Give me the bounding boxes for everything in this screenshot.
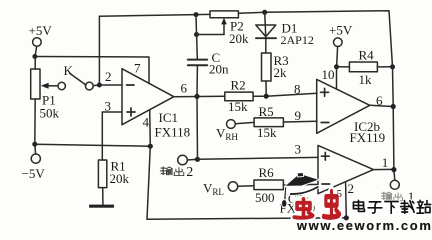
op-amp IC2a triangle: [318, 145, 374, 193]
svg-text:IC1: IC1: [159, 110, 179, 125]
wire: VRL to R6: [238, 185, 254, 188]
svg-text:−5V: −5V: [22, 166, 46, 181]
svg-text:20k: 20k: [229, 31, 249, 46]
IC2a plus sign: [321, 152, 329, 160]
IC1 inverting input minus sign: [127, 84, 135, 86]
wire: +5V rail to IC1 pin 7: [35, 57, 149, 84]
terminal: -5V: [31, 154, 40, 163]
wire: switch to IC1 pin 2 junction: [93, 84, 99, 87]
watermark: site name CJK text: [353, 200, 430, 213]
wire: IC1 output node down the left: [196, 96, 199, 159]
svg-text:K: K: [64, 63, 74, 78]
node: IC1 output junction: [194, 94, 199, 99]
wire: IC1 pin 3 input: [102, 111, 122, 113]
node: +5V rail junction: [32, 54, 37, 59]
wire: C branch vertical from top rail: [195, 15, 198, 35]
svg-text:15k: 15k: [257, 125, 277, 140]
wire: pin 3 vertical to R1: [101, 112, 103, 160]
switch K contact left: [58, 82, 65, 89]
wire: node to IC2a pin 3: [198, 157, 319, 159]
label: output 2 (CJK): [160, 167, 183, 176]
wire: R1 to ground: [102, 188, 104, 205]
svg-text:R2: R2: [231, 78, 246, 93]
wire: R3 to pin 8 node: [265, 81, 267, 96]
wire: R5 to IC2b pin 9: [283, 120, 317, 123]
watermark white halo: [294, 191, 431, 233]
P2 wiper arrow vertical: [221, 18, 227, 35]
resistor R6 body: [254, 180, 283, 190]
watermark: red chong chong characters: [294, 191, 339, 217]
wire: P1 top to +5V junction: [34, 57, 36, 70]
wire: P1 bottom to -5V junction: [34, 99, 36, 144]
wire: C to IC1 output node: [196, 66, 198, 96]
resistor R3 body: [262, 53, 272, 81]
terminal: +5V right: [334, 38, 343, 47]
wire: IC2a output to bus: [374, 168, 394, 170]
wire: +5V right terminal to junction: [337, 47, 338, 67]
IC2b plus sign: [321, 88, 329, 96]
wire: -5V terminal stub: [34, 144, 37, 154]
wire: IC1 output to R2: [174, 95, 225, 97]
terminal: +5V left: [33, 38, 42, 47]
wire: VRH to R5: [235, 122, 254, 123]
wire: +5V terminal to rail junction: [35, 46, 37, 56]
svg-text:20n: 20n: [209, 62, 229, 77]
svg-text:50k: 50k: [40, 106, 60, 121]
svg-text:1: 1: [382, 155, 389, 170]
svg-text:7: 7: [134, 61, 141, 76]
IC1 non-inverting input plus sign: [127, 108, 135, 116]
watermark: graduation cap logo: [282, 173, 320, 208]
svg-text:3: 3: [105, 99, 112, 114]
op-amp IC1 triangle: [122, 69, 174, 125]
IC2a minus sign: [322, 183, 330, 185]
svg-text:15k: 15k: [228, 99, 248, 114]
svg-text:FX119: FX119: [350, 130, 386, 145]
wire: junction to R4: [337, 66, 350, 68]
switch K contact right: [85, 82, 93, 90]
capacitor C top plate: [188, 59, 207, 61]
terminal: VRH input: [227, 120, 236, 129]
resistor R2 body: [225, 92, 253, 101]
svg-text:1k: 1k: [359, 72, 373, 87]
node: output 1 junction: [391, 167, 396, 172]
svg-text:FX118: FX118: [155, 125, 191, 140]
wire: D1 cathode to R3: [265, 38, 267, 53]
svg-text:VRL: VRL: [203, 181, 224, 198]
node: junction bottom rail x=331: [328, 216, 333, 221]
resistor R5 body: [254, 118, 283, 127]
wire: R2 to IC2b pin 8: [253, 93, 317, 96]
wire: top feedback rail (output node to IC1 pin 2 node): [99, 11, 392, 67]
diode D1 triangle: [256, 25, 276, 37]
svg-text:5: 5: [337, 189, 342, 200]
svg-text:3: 3: [295, 142, 302, 157]
wire: IC2b output: [370, 105, 393, 106]
terminal: output 1: [390, 180, 399, 189]
svg-text:2: 2: [105, 69, 112, 84]
wire: -5V rail to IC1 pin 4 junction: [35, 144, 151, 146]
svg-text:2: 2: [186, 165, 193, 180]
label: output 1 (CJK, faint): [381, 192, 402, 201]
svg-text:+5V: +5V: [29, 23, 53, 38]
terminal: output 2: [178, 155, 188, 165]
svg-text:4: 4: [143, 115, 150, 130]
diode D1 cathode bar: [256, 37, 276, 39]
svg-text:R5: R5: [259, 104, 274, 119]
wire: output2 terminal to node: [187, 158, 197, 161]
svg-text:R4: R4: [359, 48, 375, 63]
wire: R4 to output node: [377, 66, 392, 68]
node: junction bottom rail x=346: [344, 215, 349, 220]
wire: left vertical drop to IC1 pin 2: [98, 16, 100, 85]
wire: IC2b pin 10 stub: [336, 67, 338, 89]
wire: P2 wiper horizontal: [197, 34, 225, 36]
resistor R1 body: [98, 160, 106, 188]
svg-text:20k: 20k: [110, 171, 130, 186]
wire: junction to IC1 pin 2: [99, 84, 122, 86]
node: -5V junction: [32, 142, 37, 147]
svg-text:500: 500: [255, 190, 275, 205]
svg-text:6: 6: [181, 81, 188, 96]
wire: IC2a pin stub at x=331: [330, 188, 332, 218]
wire: bottom loop down and right to IC2a ground: [147, 146, 346, 219]
node: IC1 pin 4 junction: [148, 144, 153, 149]
node: R4/top rail junction: [390, 64, 395, 69]
svg-text:2AP12: 2AP12: [281, 33, 314, 47]
svg-text:9: 9: [295, 108, 302, 123]
capacitor C bottom plate: [188, 64, 207, 66]
wire: D1 anode stub (passes through symbol): [265, 12, 266, 38]
node: junction top wire / C branch: [194, 12, 199, 17]
wire: IC2a pin stub at x=345: [345, 182, 348, 218]
svg-text:R6: R6: [259, 165, 275, 180]
svg-text:2: 2: [348, 181, 355, 196]
svg-text:8: 8: [294, 82, 301, 97]
svg-text:VRH: VRH: [216, 126, 238, 143]
node: IC1 pin 2 junction: [97, 83, 102, 88]
resistor R4 body: [349, 62, 377, 72]
svg-text:www.eeworm.com: www.eeworm.com: [296, 218, 431, 232]
node: pin 8 node junction: [264, 94, 269, 99]
svg-text:2k: 2k: [274, 65, 288, 80]
switch K blade: [70, 73, 86, 85]
potentiometer P1 body: [31, 69, 40, 99]
IC2b minus sign: [321, 122, 329, 124]
op-amp IC2b triangle: [317, 79, 370, 133]
wire: output bus vertical: [393, 67, 395, 181]
node: +5V/R4/pin10 junction: [334, 64, 339, 69]
node: P2 wiper junction: [194, 32, 199, 37]
node: output2 junction: [195, 157, 200, 162]
terminal: VRL input: [228, 182, 237, 191]
potentiometer P2 body: [210, 11, 238, 18]
node: IC2b output junction: [391, 104, 396, 109]
node: junction top wire / D1 anode: [262, 10, 267, 15]
ground symbol: [89, 205, 114, 208]
wire: junction down to capacitor C: [196, 35, 199, 59]
P1 wiper arrow: [41, 83, 58, 89]
wire: R6 to IC2a pin 2: [283, 183, 318, 186]
wire: IC1 pin 4 stub: [149, 110, 152, 146]
svg-text:10: 10: [322, 67, 335, 82]
svg-text:+5V: +5V: [329, 23, 353, 38]
